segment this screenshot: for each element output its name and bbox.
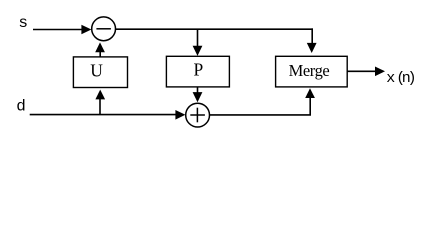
arrowhead into subtractor bottom [95, 42, 105, 52]
arrowhead into P top [193, 46, 203, 56]
block P [166, 56, 229, 87]
wire branch down into Merge top [311, 28, 313, 43]
svg-text:x: x [386, 70, 395, 87]
node x(n) output label [386, 70, 416, 87]
block Merge [276, 56, 348, 87]
svg-text:): ) [408, 70, 417, 87]
svg-text:Merge: Merge [289, 61, 330, 80]
svg-text:U: U [90, 61, 103, 81]
wire s input line [33, 29, 83, 31]
arrowhead into U bottom [95, 90, 105, 100]
arrowhead at output [375, 67, 385, 77]
summing junction adder (plus circle) [186, 103, 210, 127]
wire U output up to subtractor [99, 52, 101, 57]
arrowhead into adder left [175, 110, 185, 120]
svg-text:P: P [194, 60, 204, 80]
block U [73, 57, 127, 88]
arrowhead into adder top [193, 92, 203, 102]
wire branch down into P [197, 29, 199, 46]
arrowhead into Merge bottom [305, 88, 315, 98]
wire P output down [197, 87, 199, 94]
wire subtractor output top bus [116, 28, 314, 30]
wire d branch up into U [99, 99, 101, 115]
arrowhead into Merge top [307, 43, 317, 53]
arrowhead into subtractor left [81, 25, 91, 35]
wire adder output to Merge bottom [210, 97, 310, 115]
wire Merge output [347, 70, 375, 72]
summing junction subtractor (minus circle) [92, 17, 116, 41]
svg-text:s: s [18, 14, 28, 32]
wire d input line [30, 114, 177, 116]
svg-text:d: d [16, 97, 26, 115]
